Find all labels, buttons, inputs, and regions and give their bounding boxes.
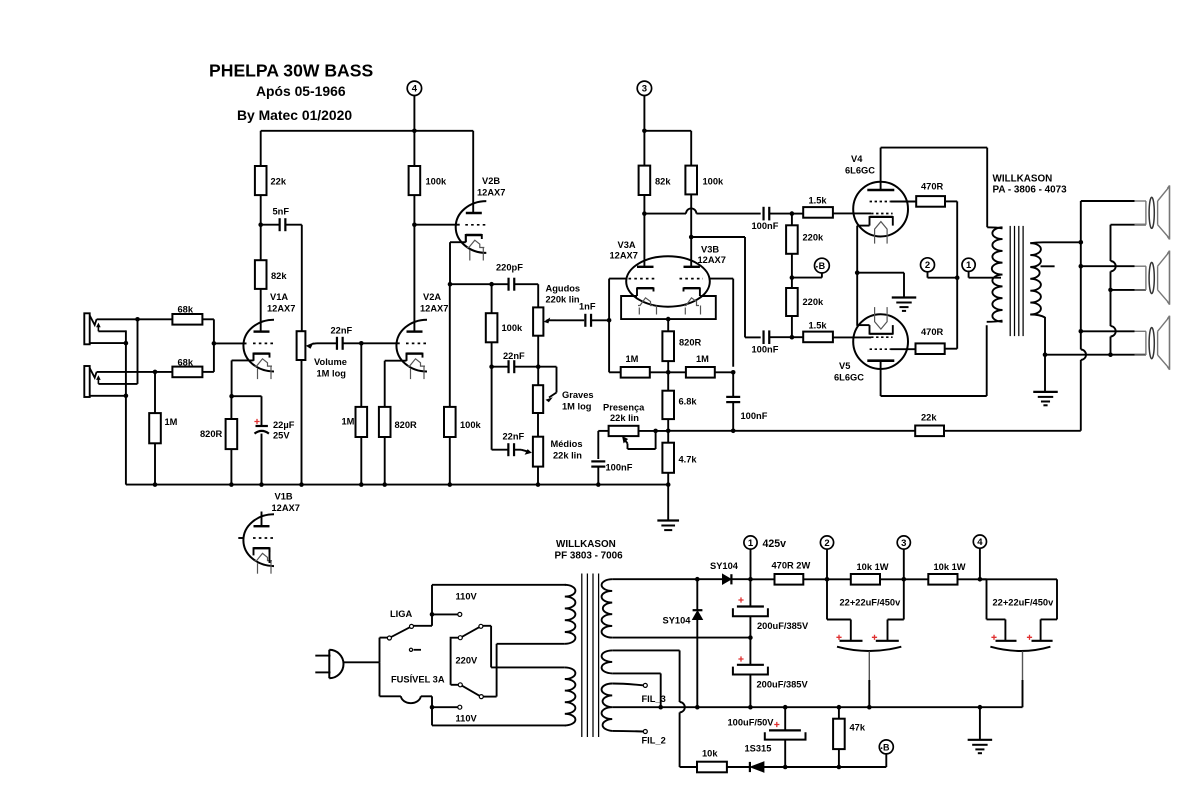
svg-text:47k: 47k <box>850 723 866 733</box>
wire 1M left to tail <box>650 371 668 373</box>
wire 820R v3 top <box>667 319 669 331</box>
wire to V2A grid <box>361 342 399 344</box>
junction rail/100k <box>412 129 417 134</box>
svg-text:425v: 425v <box>763 538 787 550</box>
resistor 1.5k upper <box>803 207 833 218</box>
junction C2 gnd <box>748 705 753 710</box>
svg-text:22+22uF/450v: 22+22uF/450v <box>840 598 902 608</box>
capacitor 100nF tail <box>726 396 740 398</box>
svg-text:LIGA: LIGA <box>390 609 412 619</box>
wire tail to 1M right <box>668 371 686 373</box>
capacitor 100nF lower coupling <box>762 330 764 344</box>
junction 110V bottom tap <box>430 705 435 710</box>
wire 820R v2a bottom <box>384 437 386 485</box>
junction v3b plate node <box>689 235 694 240</box>
svg-text:PF 3803 - 7006: PF 3803 - 7006 <box>555 551 624 562</box>
wire spk1 plus <box>1081 200 1135 202</box>
junction node2 psu <box>825 577 830 582</box>
wire 1M left <box>608 320 610 372</box>
capacitor 22uF plus <box>254 419 259 424</box>
junction cathode box bottom <box>666 317 671 322</box>
svg-text:1M: 1M <box>696 354 709 364</box>
ground speakers <box>1033 391 1058 393</box>
svg-text:V3A: V3A <box>618 240 636 250</box>
wire jack2 tip <box>97 371 173 373</box>
wire 100k bottom <box>413 195 415 225</box>
node circle 1 amp <box>962 258 975 271</box>
wire V5 plate lead <box>880 361 882 396</box>
jack J1 tip contact <box>90 315 97 325</box>
svg-text:12AX7: 12AX7 <box>477 188 505 198</box>
wire 220k chain top <box>791 214 793 226</box>
svg-text:100nF: 100nF <box>741 411 768 421</box>
junction v3 rail <box>642 129 647 134</box>
wire V2B plate lead <box>472 131 474 213</box>
svg-text:SY104: SY104 <box>710 561 739 571</box>
wire plug to junction <box>343 661 379 663</box>
junction 820R v2a gnd <box>382 482 387 487</box>
potentiometer Medios body <box>533 437 543 467</box>
pot Agudos wiper <box>547 319 557 321</box>
resistor 47k <box>833 719 845 749</box>
potentiometer Graves body <box>533 385 543 413</box>
junction tail node <box>666 370 671 375</box>
resistor 220k lower <box>786 288 798 316</box>
wire 1.5k to V4 grid <box>833 212 871 214</box>
junction jack2 tip / 1M <box>153 370 158 375</box>
resistor 1.5k lower <box>803 332 833 343</box>
ground rail preamp <box>126 484 669 486</box>
resistor 4.7k <box>662 443 674 473</box>
svg-text:12AX7: 12AX7 <box>420 304 448 314</box>
capacitor 100uF/50V <box>774 722 779 727</box>
OT secondary tap stub <box>1041 265 1055 267</box>
junction graves 22nF tap <box>489 364 494 369</box>
hop busB over spk3 <box>1111 326 1116 336</box>
svg-text:WILLKASON: WILLKASON <box>993 174 1053 185</box>
wire cathode node right <box>450 283 492 285</box>
hop over 100k lead <box>686 208 696 213</box>
svg-text:12AX7: 12AX7 <box>272 503 300 513</box>
node circle 4 <box>407 81 421 95</box>
wire jack1 tip <box>97 318 173 320</box>
svg-text:6.8k: 6.8k <box>679 397 698 407</box>
wire 68k join right <box>202 318 214 320</box>
junction V2A plate / V2B grid <box>412 222 417 227</box>
svg-text:B: B <box>883 742 890 752</box>
svg-text:100k: 100k <box>460 420 482 430</box>
resistor 82k <box>255 260 267 289</box>
wire node1 stem <box>750 549 752 579</box>
capacitor 22nF graves <box>507 360 509 373</box>
junction jack2 sleeve <box>124 394 129 399</box>
junction D2 gnd <box>695 705 700 710</box>
junction upper grid node <box>790 211 795 216</box>
V1B grid stub <box>238 537 243 539</box>
junction medios gnd <box>536 482 541 487</box>
FIL_3 lead <box>612 684 643 686</box>
wire psu gnd stem <box>979 707 981 740</box>
wire fuse right down <box>431 696 433 725</box>
junction presenca wiper <box>653 429 658 434</box>
wire to 220pF <box>492 283 509 285</box>
junction 68k join <box>212 341 217 346</box>
diode SY104 series <box>697 578 722 580</box>
svg-text:12AX7: 12AX7 <box>610 251 638 261</box>
triode V3B grid dashes <box>680 278 704 280</box>
pot Medios wiper <box>521 450 528 452</box>
triode V2B <box>456 201 487 253</box>
svg-text:820R: 820R <box>679 338 702 348</box>
wire 100k V3B bottom <box>690 194 692 266</box>
wire V3B grid lead <box>709 278 734 280</box>
svg-text:FUSÍVEL 3A: FUSÍVEL 3A <box>391 675 445 685</box>
triode V3A plate <box>637 266 654 268</box>
wire 220k mid <box>791 254 793 288</box>
diode 1S315 <box>727 766 750 768</box>
svg-text:V2B: V2B <box>482 176 500 186</box>
svg-text:Médios: Médios <box>551 439 583 449</box>
junction jack1 sleeve <box>124 341 129 346</box>
capacitor 100nF presenca <box>591 460 605 462</box>
resistor 820R V3 <box>662 331 674 361</box>
wire 100k v2b top <box>491 284 493 313</box>
wire LIGA up <box>431 585 433 626</box>
junction 1M v2a gnd <box>359 482 364 487</box>
jack J2 tip contact <box>90 368 97 378</box>
junction return gnd <box>1043 352 1048 357</box>
filter can 22+22uF first <box>826 579 828 619</box>
junction 820R gnd <box>229 482 234 487</box>
svg-text:4.7k: 4.7k <box>679 455 698 465</box>
LIGA indicator <box>409 648 412 651</box>
svg-text:22k: 22k <box>921 412 937 422</box>
svg-text:Após 05-1966: Após 05-1966 <box>256 83 346 99</box>
diode SY104 shunt <box>696 579 698 610</box>
triode V3B plate <box>684 266 700 268</box>
wire node1 lead to OT tap <box>968 271 970 277</box>
junction V2B cathode node <box>448 282 453 287</box>
wire 1M input top <box>154 372 156 413</box>
wire 1M v2a bottom <box>360 437 362 485</box>
wire 4.7k bottom <box>667 473 669 520</box>
OT primary top lead <box>987 227 1002 228</box>
junction jack1 tip to jack2 switch <box>135 317 140 322</box>
svg-text:22k: 22k <box>271 177 287 187</box>
resistor 68k lower <box>172 367 202 378</box>
resistor 820R V2A <box>379 407 391 437</box>
svg-text:1M: 1M <box>165 417 178 427</box>
junction 47k bias <box>837 765 842 770</box>
selector 220V bar <box>450 638 452 684</box>
junction can1 gnd <box>867 705 872 710</box>
wire 491 down <box>491 367 493 450</box>
node circle B psu <box>879 740 893 754</box>
wire 220k bottom <box>791 316 793 337</box>
svg-text:82k: 82k <box>655 177 671 187</box>
svg-text:V3B: V3B <box>701 245 719 255</box>
junction 1M right <box>731 370 736 375</box>
selector blade lower <box>462 686 480 696</box>
potentiometer Agudos body <box>533 307 543 335</box>
pot Volume wiper arrow <box>313 342 317 345</box>
svg-text:12AX7: 12AX7 <box>267 304 295 314</box>
svg-text:100k: 100k <box>426 177 448 187</box>
wire plug T down <box>379 662 381 696</box>
svg-text:1: 1 <box>966 260 972 271</box>
PT bias winding <box>602 650 613 673</box>
svg-text:5nF: 5nF <box>273 207 290 217</box>
filter can 22+22uF second <box>980 578 987 580</box>
svg-text:WILLKASON: WILLKASON <box>556 539 616 550</box>
wire mains bottom rail <box>432 724 566 726</box>
PT filament winding <box>602 684 613 731</box>
triode V3A cathode <box>637 287 654 289</box>
FIL_2 lead <box>612 730 643 733</box>
resistor 22k <box>255 166 267 195</box>
svg-text:FIL_3: FIL_3 <box>642 694 666 704</box>
PT bias bottom lead <box>612 672 661 674</box>
wire node2 lead <box>927 272 929 278</box>
svg-text:PA - 3806 - 4073: PA - 3806 - 4073 <box>993 185 1068 196</box>
resistor 100k V3B <box>685 166 697 195</box>
wire 100k cathode bottom <box>449 437 451 485</box>
jack J1 tip arrow <box>96 323 101 328</box>
ground PSU <box>968 739 993 741</box>
triode V1A <box>243 320 274 372</box>
svg-text:6L6GC: 6L6GC <box>845 166 875 176</box>
node circle 3 psu <box>897 536 910 549</box>
PT HV winding <box>602 579 613 637</box>
triode V1B <box>243 514 274 566</box>
svg-text:820R: 820R <box>200 429 223 439</box>
wire presenca left <box>598 430 608 432</box>
svg-text:220pF: 220pF <box>496 263 523 273</box>
wire spk1 minus <box>1111 224 1146 226</box>
wire 5nF to volume <box>301 225 303 332</box>
resistor 1M V2A <box>356 407 368 437</box>
svg-text:V4: V4 <box>851 154 863 164</box>
resistor 100k V2A <box>409 166 421 195</box>
node circle B top <box>815 258 830 273</box>
svg-text:V2A: V2A <box>423 292 441 302</box>
wire 6.8k bottom <box>667 419 669 431</box>
junction D2 top <box>695 577 700 582</box>
wire V1A cathode <box>253 353 255 361</box>
resistor 10k 1W second <box>928 574 957 585</box>
svg-text:1S315: 1S315 <box>745 744 772 754</box>
svg-text:2: 2 <box>824 538 829 549</box>
node circle 2 amp <box>921 258 935 272</box>
junction 100nF nfb <box>731 429 736 434</box>
svg-text:Presença: Presença <box>603 403 645 413</box>
wire ground drop left <box>125 343 127 485</box>
OT primary bottom lead <box>987 321 1003 322</box>
wire v3b to lower 100nF <box>691 236 745 238</box>
capacitor 200uF/385V first <box>738 597 743 602</box>
svg-text:10k 1W: 10k 1W <box>934 562 966 572</box>
AC plug <box>329 650 343 678</box>
node circle 4 psu <box>973 535 986 548</box>
junction 6.8k/4.7k <box>666 429 671 434</box>
OT core <box>1009 226 1011 336</box>
resistor 1M input <box>149 413 161 443</box>
triode V3B cathode <box>684 287 700 289</box>
capacitor 22uF 25V <box>256 425 268 427</box>
wire 82k bottom to rail <box>643 195 645 214</box>
wire 100k V2A plate top <box>413 131 415 166</box>
svg-text:3: 3 <box>642 84 647 95</box>
potentiometer Volume body <box>297 331 306 360</box>
wire graves to medios <box>537 413 539 437</box>
pot Presenca wiper <box>624 439 628 444</box>
wire 100k v2b bottom <box>491 342 493 366</box>
speaker SP2 <box>1135 265 1147 267</box>
junction 220pF tap <box>489 282 494 287</box>
wire V2A cathode <box>406 353 408 361</box>
wire to 1.5k upper <box>792 213 803 215</box>
V3A heater <box>638 298 653 306</box>
capacitor 220pF <box>507 278 509 291</box>
wire 1.5k to V5 grid <box>833 336 871 338</box>
speaker SP1 <box>1135 200 1147 202</box>
wire 100k v2b rail <box>449 284 451 407</box>
capacitor 5nF <box>279 218 281 231</box>
svg-text:4: 4 <box>412 84 418 95</box>
PSU ground rail <box>612 706 1022 708</box>
junction busB return <box>1108 352 1113 357</box>
junction screen bus node2 <box>955 275 960 280</box>
svg-text:1.5k: 1.5k <box>809 195 828 205</box>
wire 110V top tap <box>432 613 458 615</box>
svg-text:Agudos: Agudos <box>546 284 581 294</box>
wire 820R V1A leads <box>230 396 232 419</box>
wire medios bottom <box>537 467 539 485</box>
resistor 1M left <box>621 367 650 378</box>
svg-text:1M: 1M <box>342 417 355 427</box>
svg-text:PHELPA 30W BASS: PHELPA 30W BASS <box>209 61 374 81</box>
wire 820R v3 bottom <box>667 361 669 372</box>
svg-text:22µF: 22µF <box>273 420 295 430</box>
OT secondary winding <box>1030 243 1041 314</box>
svg-text:1.5k: 1.5k <box>809 320 828 330</box>
wire V4 cathode down <box>856 226 858 326</box>
svg-text:100k: 100k <box>502 323 524 333</box>
wire 110V bottom tap <box>432 706 458 708</box>
svg-text:SY104: SY104 <box>663 616 692 626</box>
wire V5 plate to OT <box>881 395 987 397</box>
svg-text:470R: 470R <box>921 182 944 192</box>
junction presenca gnd <box>596 482 601 487</box>
jack J2 sleeve wire <box>90 395 126 397</box>
capacitor 100nF upper coupling <box>762 207 764 221</box>
svg-text:10k: 10k <box>702 749 718 759</box>
junction 22nF/1M <box>359 341 364 346</box>
resistor 10k bias <box>697 762 727 773</box>
OT primary winding <box>992 227 1003 321</box>
svg-text:1M: 1M <box>626 354 639 364</box>
svg-text:82k: 82k <box>271 271 287 281</box>
wire spk3 plus <box>1081 330 1135 332</box>
svg-text:Volume: Volume <box>314 357 347 367</box>
junction lower grid node <box>790 335 795 340</box>
svg-text:100k: 100k <box>703 177 725 187</box>
speaker bus A <box>1080 201 1082 350</box>
V1B plate stub <box>261 512 263 527</box>
junction 4.7k gnd rail <box>666 482 671 487</box>
wire V3A plate lead <box>643 214 645 267</box>
wire 82k top <box>260 225 262 261</box>
svg-text:V1B: V1B <box>275 492 293 502</box>
junction 1M/gnd-rail <box>153 482 158 487</box>
junction graves top <box>536 364 541 369</box>
resistor 100k V2B <box>486 313 498 342</box>
wire V4 plate to OT <box>881 147 988 149</box>
svg-text:V1A: V1A <box>270 292 288 302</box>
svg-text:220k lin: 220k lin <box>546 295 580 305</box>
capacitor 200uF/385V second <box>738 656 743 661</box>
wire 22k top <box>260 131 262 166</box>
wire 10k1 right <box>880 578 928 580</box>
svg-text:22nF: 22nF <box>503 351 525 361</box>
svg-text:68k: 68k <box>178 304 194 314</box>
wire bias line <box>785 766 886 768</box>
svg-text:100uF/50V: 100uF/50V <box>728 718 775 728</box>
jack J2 switch wire <box>98 383 137 385</box>
resistor 10k 1W first <box>851 574 880 585</box>
pentode V5 <box>853 314 908 369</box>
jack J1 switch wire <box>98 330 126 332</box>
svg-text:110V: 110V <box>456 592 478 602</box>
junction 100k cathode gnd <box>448 482 453 487</box>
wire mains top rail <box>432 584 566 586</box>
wire secondary return <box>1045 354 1146 356</box>
junction 22k/5nF <box>258 222 263 227</box>
wire cathode to ground <box>857 272 904 274</box>
junction busB spk2 <box>1108 288 1113 293</box>
junction 100uF gnd <box>783 705 788 710</box>
input jack J1 body <box>84 313 89 344</box>
wire return ground drop <box>1044 355 1046 392</box>
svg-text:10k 1W: 10k 1W <box>857 562 889 572</box>
V3B heater <box>684 298 699 306</box>
junction node4 psu <box>978 577 983 582</box>
svg-text:68k: 68k <box>178 357 194 367</box>
node 4 stem <box>413 96 415 131</box>
resistor 6.8k <box>662 391 674 419</box>
wire NFB line <box>668 430 915 432</box>
resistor 82k V3A <box>639 166 651 195</box>
node 3 stem <box>643 96 645 131</box>
resistor 470R 2W <box>775 574 804 585</box>
potentiometer Presenca body <box>609 426 639 436</box>
junction bias feed <box>790 275 795 280</box>
svg-text:25V: 25V <box>273 431 290 441</box>
OT secondary bottom lead <box>1030 315 1045 318</box>
svg-text:1: 1 <box>748 538 754 549</box>
capacitor 1nF <box>584 314 586 327</box>
capacitor 22nF volume <box>336 337 338 350</box>
wire 10k2 right <box>958 578 1058 580</box>
capacitor 22nF medios <box>507 443 509 456</box>
svg-text:By Matec 01/2020: By Matec 01/2020 <box>237 107 352 123</box>
wire V4 plate lead <box>880 148 882 190</box>
wire 1M input bottom <box>154 443 156 484</box>
svg-text:470R: 470R <box>921 327 944 337</box>
fuse <box>380 695 401 697</box>
svg-text:22k lin: 22k lin <box>610 413 639 423</box>
svg-text:6L6GC: 6L6GC <box>834 373 864 383</box>
